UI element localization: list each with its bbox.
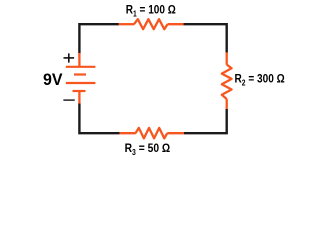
svg-text:R3 = 50 Ω: R3 = 50 Ω [125,141,171,157]
resistor R2 bottom lead [226,99,228,109]
wire: R3 to battery negative (bottom-left corner) [79,103,119,133]
resistor R1 left lead [119,23,135,25]
resistor R2 top lead [226,52,228,64]
wire: R1 to R2 (top-right corner) [184,24,227,53]
resistor R1 body (zigzag) [134,19,168,29]
resistor R1 right lead [168,23,185,25]
battery polarity minus sign [63,99,74,101]
battery B1 (9V) plates [66,67,96,91]
resistor R3 left lead [119,132,136,134]
svg-text:R1 = 100 Ω: R1 = 100 Ω [126,2,176,18]
wire: battery positive terminal up and across to R1 (top-left corner) [79,24,119,53]
battery polarity plus sign [64,53,75,62]
wire: R2 to R3 (bottom-right corner) [184,109,227,133]
wire: battery positive lead (orange stub above top plate) [78,53,80,67]
resistor R3 body (zigzag) [136,128,168,138]
wire: battery negative lead (orange stub below bottom plate) [78,91,80,104]
resistor R3 right lead [167,132,184,134]
svg-text:R2 = 300 Ω: R2 = 300 Ω [235,72,286,88]
svg-text:9V: 9V [43,70,63,89]
resistor R2 body (vertical zigzag) [222,65,232,100]
